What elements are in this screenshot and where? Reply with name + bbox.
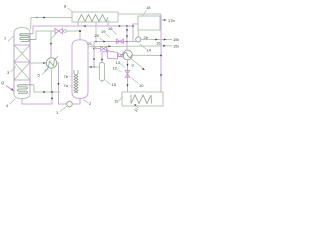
flow arrow [118,25,120,27]
flow arrow [101,59,103,61]
junction dot [93,66,95,68]
valve V4 [125,71,130,78]
svg-text:10: 10 [139,83,144,88]
flow arrow [126,29,128,31]
wire HX8 outlet right and down [118,13,161,15]
flow arrow [160,74,162,76]
wire right manifold down [160,14,162,92]
leader 1 [60,106,67,112]
svg-text:19: 19 [101,29,106,34]
wire into dryer [102,52,108,63]
leader 18 [143,10,147,16]
junction dot [126,41,128,43]
column K1 shell [14,28,30,99]
svg-text:18: 18 [146,5,151,10]
leader 7 [8,36,14,42]
work arrow from generator [131,59,144,70]
leader 16 [112,30,116,34]
wire cooler outlet down to pump P1 [57,63,67,104]
pump P1 [67,101,73,107]
wire K1 bottoms out [22,93,52,105]
vessel B coil [74,70,78,93]
wire top into generator [126,26,128,50]
wire pump P2 out 15b [141,39,172,41]
leader 2 [84,100,89,104]
leader 4 [10,99,16,105]
junction dot [160,55,162,57]
junction dot [126,25,128,27]
dryer D cylinder [100,63,105,81]
junction dot [132,25,134,27]
svg-text:12: 12 [113,65,118,70]
cooler C1 zigzag [45,57,59,72]
heat arrow Q into reboiler [6,86,13,91]
wire valve V3 branch [94,48,101,50]
coil lead ticks [70,75,74,78]
flow arrow [51,97,53,99]
reboiler coil in K1 bottom [18,85,34,93]
leader 11 [118,97,123,102]
wire 18 bottom to pump P2 [137,30,139,37]
flow arrow [126,84,128,86]
svg-text:Q: Q [1,80,4,85]
wire V3 to turbine [107,49,109,51]
junction dot [95,41,97,43]
flow arrow [43,62,45,64]
leader 13 [120,64,125,68]
svg-text:Q: Q [135,107,138,112]
wire 18 vapor out [160,19,167,21]
wire to dryer region [94,66,100,68]
junction dot [79,30,81,32]
turbine T [108,51,118,59]
leader 14 [140,44,146,49]
svg-text:7b: 7b [64,74,69,79]
leader 10 [131,78,139,84]
flow arrow [126,64,128,66]
generator G [123,50,133,60]
flow arrow [43,16,45,18]
leader 20 [99,38,103,41]
junction dot [51,91,53,93]
wire down to cooler C1 [50,31,52,58]
vessel B shell [72,40,88,99]
wire cooler bottom down [51,68,53,92]
nozzle circle [64,30,67,33]
valve V3 [101,46,107,50]
flow arrow [164,38,166,40]
svg-text:14: 14 [147,48,152,53]
flow arrow [108,45,110,47]
wire vertical manifold x94 [93,42,95,68]
HX8 coil [78,15,108,22]
svg-text:15: 15 [112,82,117,87]
wire K1 top vapor to HX8 [31,18,73,30]
evaporator HX11 shell [122,92,163,106]
flow arrow [93,58,95,60]
HX8 drain wire [95,22,97,42]
svg-text:21: 21 [88,41,93,46]
svg-text:15a: 15a [173,43,179,48]
flow arrow [126,35,128,37]
HX11 coil [131,95,152,104]
column K1 packing X lower [14,62,30,80]
leader 15 [105,80,111,85]
HX8 coil leads [78,20,108,26]
wire pump P1 to vessel bottom [72,99,80,105]
leader 12 [117,69,122,73]
flow arrow [50,43,52,45]
column K1 section dividers [14,45,30,80]
flow arrow [163,45,165,47]
flow arrow [103,40,105,42]
shaft coupling circles [118,54,121,57]
wire vessel vapor line 15a [88,45,172,48]
cooler C1 [46,58,56,68]
flow arrow [83,25,85,27]
flow arrow 17b [164,19,166,21]
svg-text:2b: 2b [144,35,149,40]
heat arrow Qc [135,105,139,109]
pump P2 [136,37,141,42]
flow arrow [89,66,91,68]
junction tick [36,17,38,19]
dephlegmator coil 7 in K1 top [20,34,36,42]
wire purple regenerator line [33,26,133,34]
drum 18 [138,16,160,30]
junction dot [93,48,95,50]
svg-text:16: 16 [108,26,113,31]
wire reflux line to valve V1 [36,31,55,40]
dryer bottom stub [101,81,103,83]
svg-text:7a: 7a [64,83,69,88]
valve V2 [117,39,124,43]
flow arrow [57,83,59,85]
flow arrow [155,38,157,40]
wire reboiler stub down [34,85,60,92]
wire V1 to vessel B apex [63,31,80,40]
leader 8 [68,8,73,12]
svg-text:16: 16 [156,40,161,45]
leader 5 [42,69,48,75]
wire K1 mid to cooler [30,62,46,64]
svg-text:13: 13 [116,60,121,65]
leader valve V1 [50,34,57,40]
leader 19 [106,34,111,38]
wire generator outlet right [132,54,161,56]
HX8 shell [72,12,118,22]
svg-text:17b: 17b [168,18,175,23]
leader 3 [11,67,17,73]
column K1 packing X upper [14,45,30,62]
wire 18 inlet from purple line [133,24,138,42]
junction dot [43,91,45,93]
valve V1 [55,28,63,33]
wire into vessel side [88,66,94,68]
generator sine [123,53,132,58]
wire generator down to valve V4 [127,60,129,92]
wire purple distribution line [94,41,137,43]
svg-text:15b: 15b [173,37,179,42]
svg-text:20: 20 [95,33,100,38]
leader 21 [92,45,97,48]
